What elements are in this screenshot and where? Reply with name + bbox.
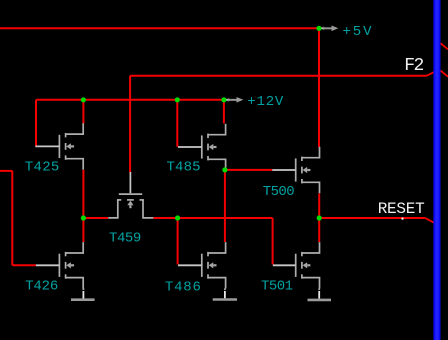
ground under T426	[71, 289, 95, 300]
wire T485 source down to T486 drain	[224, 168, 226, 242]
svg-text:+5V: +5V	[343, 24, 373, 40]
junction dot D8	[222, 167, 227, 172]
power arrow +5V	[320, 26, 339, 32]
wire net A vertical	[11, 171, 13, 265]
svg-text:F2: F2	[404, 56, 424, 76]
junction dot D2	[81, 97, 86, 102]
transistor T426	[59, 242, 83, 288]
svg-text:T459: T459	[109, 231, 141, 247]
wire bus entry right second	[441, 71, 448, 77]
junction dot D1	[316, 26, 321, 31]
wire D7 down to T501 drain	[318, 218, 320, 242]
wire D8 to T500 gate	[225, 169, 272, 171]
svg-text:T500: T500	[263, 184, 295, 200]
transistor T459 rotated, gate up	[108, 172, 153, 218]
T426 gate pin	[36, 264, 60, 266]
T485 source gray stub	[224, 168, 226, 171]
T459 body arrow	[127, 201, 133, 206]
T501 gate pin	[273, 264, 296, 266]
T459 gate plate	[119, 193, 142, 195]
wire D4 to T485 drain	[223, 100, 225, 124]
junction dot D5	[81, 215, 86, 220]
T459 gate pin vertical	[129, 172, 131, 193]
wire D2 to T425 drain	[82, 100, 84, 124]
wire +5V net vertical to T500 drain	[318, 28, 320, 147]
wire T459 right terminal to corner	[153, 217, 272, 219]
T459 right terminal	[143, 200, 153, 218]
wire T500 source down to D7	[318, 194, 320, 219]
wire +12V rail corner down to T425 gate	[35, 100, 37, 147]
ground under T486	[213, 289, 237, 300]
wire net A entry horizontal	[0, 170, 12, 172]
wire F2 net vertical to T459 gate	[129, 76, 131, 173]
T486 gate pin	[178, 264, 202, 266]
transistor T425	[59, 123, 83, 169]
svg-text:T486: T486	[165, 279, 201, 295]
wire +12V rail horizontal	[36, 99, 224, 101]
wire F2 net horizontal	[130, 75, 426, 77]
transistor T486	[202, 242, 226, 288]
junction dot D6	[175, 215, 180, 220]
junction dot D7	[317, 215, 322, 220]
wire +5V rail horizontal	[0, 27, 319, 29]
wire D3 to T485 gate	[176, 100, 178, 147]
wire D5 to T426 drain	[82, 218, 84, 242]
svg-text:RESET: RESET	[378, 200, 425, 218]
wire D6 down to T486 gate	[177, 218, 179, 264]
wire net A to T426 gate	[12, 264, 36, 266]
transistor T501	[296, 242, 320, 288]
transistor T500	[296, 147, 320, 193]
svg-text:T426: T426	[25, 279, 58, 295]
svg-text:+12V: +12V	[247, 94, 284, 110]
wire RESET bus entry diagonal	[425, 218, 435, 224]
bus vertical blue	[433, 0, 440, 340]
power arrow +12V	[225, 97, 244, 103]
wire T425 source to D5	[82, 170, 84, 218]
wire RESET net horizontal	[319, 217, 425, 219]
junction dot D3	[175, 97, 180, 102]
wire F2 bus entry diagonal	[427, 72, 434, 76]
svg-text:T425: T425	[25, 160, 60, 176]
wire D5 to T459 left terminal	[83, 217, 108, 219]
wire bus entry right top	[441, 43, 448, 49]
T459 channel ticks	[117, 199, 121, 201]
T459 left terminal	[108, 200, 118, 218]
svg-text:T501: T501	[261, 278, 293, 294]
T485 gate pin	[178, 146, 202, 148]
junction dot D4	[221, 97, 226, 102]
transistor T485	[202, 124, 226, 170]
white dot on RESET wire	[402, 218, 404, 220]
T425 gate pin	[35, 145, 59, 147]
ground under T501	[308, 289, 332, 300]
T500 gate pin	[272, 169, 296, 171]
svg-text:T485: T485	[167, 160, 201, 176]
wire corner down to T501 gate	[272, 218, 274, 264]
